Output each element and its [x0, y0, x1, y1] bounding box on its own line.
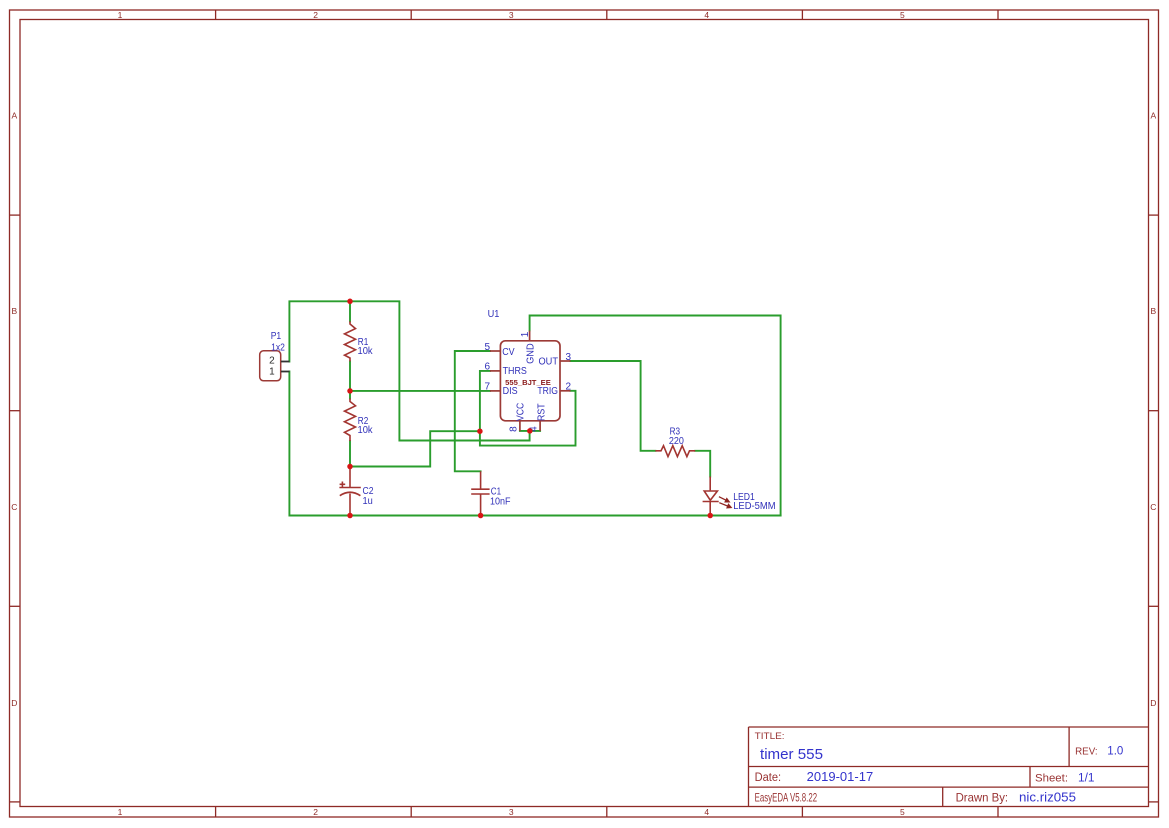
svg-text:DIS: DIS: [503, 386, 518, 397]
svg-text:D: D: [11, 698, 17, 708]
svg-text:THRS: THRS: [503, 366, 528, 377]
svg-text:C: C: [11, 502, 17, 512]
svg-text:1: 1: [520, 331, 531, 337]
svg-text:RST: RST: [536, 403, 547, 421]
svg-text:1: 1: [118, 807, 123, 817]
svg-text:TITLE:: TITLE:: [755, 731, 785, 742]
svg-text:VCC: VCC: [516, 403, 527, 421]
svg-text:5: 5: [900, 807, 905, 817]
svg-text:10nF: 10nF: [490, 497, 511, 508]
svg-text:1: 1: [118, 10, 123, 20]
svg-text:220: 220: [669, 436, 684, 447]
svg-text:U1: U1: [488, 309, 500, 320]
svg-text:EasyEDA V5.8.22: EasyEDA V5.8.22: [755, 791, 818, 805]
svg-text:3: 3: [509, 807, 514, 817]
svg-text:2: 2: [313, 10, 318, 20]
svg-text:REV:: REV:: [1075, 746, 1098, 758]
svg-text:2: 2: [313, 807, 318, 817]
svg-text:2: 2: [269, 356, 275, 367]
svg-text:P1: P1: [271, 331, 282, 342]
svg-text:3: 3: [566, 352, 572, 363]
svg-text:B: B: [1150, 306, 1156, 316]
svg-text:OUT: OUT: [539, 357, 559, 368]
svg-text:6: 6: [484, 362, 490, 373]
svg-text:CV: CV: [502, 347, 515, 358]
svg-text:555_BJT_EE: 555_BJT_EE: [505, 378, 551, 387]
svg-text:D: D: [1150, 698, 1156, 708]
svg-text:4: 4: [704, 807, 709, 817]
svg-text:GND: GND: [525, 343, 536, 364]
svg-text:7: 7: [484, 382, 490, 393]
svg-text:10k: 10k: [358, 346, 374, 357]
svg-text:A: A: [1150, 111, 1156, 121]
svg-text:1.0: 1.0: [1107, 746, 1123, 758]
svg-text:B: B: [11, 306, 17, 316]
svg-text:3: 3: [509, 10, 514, 20]
svg-text:4: 4: [704, 10, 709, 20]
svg-text:2019-01-17: 2019-01-17: [807, 770, 874, 784]
svg-text:TRIG: TRIG: [537, 386, 558, 397]
svg-text:timer 555: timer 555: [760, 746, 823, 763]
svg-text:Date:: Date:: [755, 772, 782, 784]
svg-text:A: A: [11, 111, 17, 121]
svg-text:Drawn By:: Drawn By:: [956, 791, 1009, 805]
svg-text:LED-5MM: LED-5MM: [733, 501, 775, 512]
svg-text:5: 5: [484, 342, 490, 353]
svg-text:2: 2: [566, 382, 572, 393]
svg-text:5: 5: [900, 10, 905, 20]
svg-text:nic.riz055: nic.riz055: [1019, 790, 1076, 805]
svg-text:C: C: [1150, 502, 1156, 512]
svg-text:10k: 10k: [358, 425, 374, 436]
svg-text:1: 1: [269, 366, 275, 377]
svg-text:8: 8: [508, 426, 519, 432]
svg-text:1x2: 1x2: [271, 342, 285, 353]
svg-text:1u: 1u: [363, 496, 373, 507]
svg-text:1/1: 1/1: [1078, 773, 1095, 785]
svg-text:Sheet:: Sheet:: [1035, 773, 1068, 785]
